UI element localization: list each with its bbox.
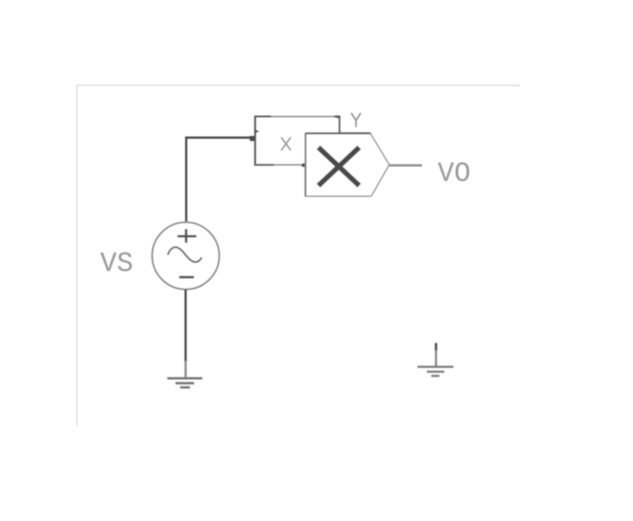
multiplier U1: X input back box — [254, 116, 340, 165]
multiplier U1: Y pin arrow — [337, 115, 341, 118]
multiplier U1: pin label Y — [351, 113, 361, 127]
multiplier U1: wire from X box to multiplier core (back box bottom edge) — [302, 163, 306, 166]
multiplier U1: times symbol — [318, 147, 359, 185]
multiplier U1: body (pentagon with output point) — [306, 133, 390, 196]
junction at X input pin — [250, 136, 255, 141]
node label V0 — [438, 159, 471, 190]
svg-text:VO: VO — [438, 159, 471, 190]
label VS — [100, 249, 133, 280]
wire from VS top to X input (vertical segment) — [185, 137, 187, 223]
svg-text:VS: VS — [100, 249, 133, 280]
multiplier U1: Y input pin vertical — [338, 116, 340, 134]
output wire from multiplier tip — [390, 164, 423, 166]
ground (below VS) — [167, 361, 202, 387]
multiplier U1: pin label X — [281, 137, 291, 150]
voltage source VS — [152, 222, 219, 289]
ground (floating, right) — [418, 343, 454, 376]
multiplier U1: X pin arrow — [256, 130, 259, 133]
wire horizontal segment to multiplier X input — [185, 137, 255, 139]
wire from VS bottom to ground — [185, 289, 187, 361]
